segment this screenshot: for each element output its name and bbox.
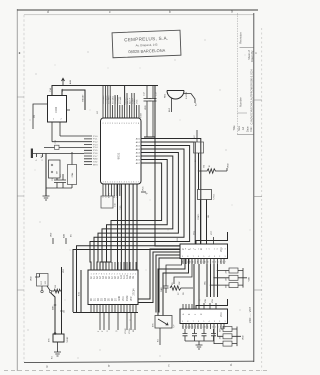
U3 bottom net labels xyxy=(98,328,135,334)
wire cap bottom rail xyxy=(144,136,155,138)
U3 top pin labels row xyxy=(90,274,135,279)
svg-text:RXD: RXD xyxy=(93,159,98,161)
svg-text:Date:: Date: xyxy=(246,126,250,132)
wire P1 line1 xyxy=(60,135,84,137)
svg-text:KD: KD xyxy=(133,329,135,332)
svg-text:COM 1: COM 1 xyxy=(198,213,200,220)
bus fan AD3 xyxy=(94,149,184,270)
wire tick marks J1 xyxy=(54,305,63,311)
svg-text:MAX: MAX xyxy=(52,305,55,310)
U3 bottom pins xyxy=(91,305,136,314)
svg-text:TLP521: TLP521 xyxy=(214,194,216,200)
box U7 xyxy=(194,142,204,153)
ground xtal xyxy=(43,196,50,200)
svg-text:P1.4: P1.4 xyxy=(93,147,98,149)
svg-text:P1.7: P1.7 xyxy=(93,156,98,158)
svg-text:BUZZER: BUZZER xyxy=(186,91,188,99)
wire RESET xyxy=(62,90,85,110)
DSP2 top pins xyxy=(183,303,216,309)
svg-text:VCC: VCC xyxy=(143,186,145,191)
wire XTAL rail xyxy=(45,154,47,197)
svg-text:108765432125242121: 108765432125242121 xyxy=(91,274,137,276)
title block divider vertical xyxy=(236,13,238,135)
svg-text:VDD: VDD xyxy=(31,276,33,281)
resistor R6 xyxy=(52,289,62,293)
connector J1 xyxy=(53,334,64,342)
svg-text:a: a xyxy=(46,365,48,369)
svg-text:4M: 4M xyxy=(57,171,59,174)
capacitor C14 xyxy=(164,281,169,293)
svg-text:P1.2: P1.2 xyxy=(93,142,98,144)
svg-text:PGM: PGM xyxy=(127,296,129,301)
zone tick left xyxy=(17,97,24,290)
U3 left wire xyxy=(73,270,138,313)
IC U5 xyxy=(48,96,67,123)
opto U6 xyxy=(198,190,212,200)
capacitor C18 xyxy=(202,329,207,341)
wire P1 line2 xyxy=(52,141,84,143)
wire DSP1 to R5 xyxy=(174,259,192,285)
wires VDL group xyxy=(207,264,218,297)
svg-text:VCC: VCC xyxy=(221,247,223,252)
transistor Q1 box xyxy=(155,316,172,329)
capacitor C13 xyxy=(150,88,157,137)
zone dot left xyxy=(19,52,21,54)
svg-text:Av. Diagonal, 143: Av. Diagonal, 143 xyxy=(136,43,158,48)
bus fan AD6 xyxy=(103,160,167,271)
svg-text:Title: Title xyxy=(232,125,236,131)
resistor RN2a xyxy=(223,327,232,332)
svg-text:OE: OE xyxy=(130,275,132,279)
wire U7 to opto xyxy=(198,153,200,190)
EPROM U3 xyxy=(88,270,138,305)
wire DSP1 vcc feed xyxy=(196,232,228,244)
svg-text:KG: KG xyxy=(52,356,54,359)
resistor R15 box xyxy=(37,274,49,287)
transistor pin circle A xyxy=(41,290,43,292)
resistor RN1a xyxy=(229,268,238,273)
svg-text:V1B: V1B xyxy=(212,299,214,303)
wires DSP1 to Q1 xyxy=(158,259,189,316)
svg-text:VD0 ..... VD7: VD0 ..... VD7 xyxy=(248,306,252,323)
wire stub VD0 xyxy=(52,238,54,244)
wires DSP1 to DSP2 xyxy=(194,264,199,309)
RN1 right join xyxy=(238,268,247,288)
svg-text:RESET: RESET xyxy=(83,94,85,102)
wire VD3 vertical xyxy=(61,267,63,334)
svg-text:2122232425262728: 2122232425262728 xyxy=(103,123,140,125)
scan speckle noise xyxy=(28,40,251,359)
svg-text:VOLA: VOLA xyxy=(128,328,131,334)
svg-text:A0B: A0B xyxy=(63,233,66,238)
svg-text:P1.0: P1.0 xyxy=(93,136,98,138)
bus fan AD5 xyxy=(100,156,173,270)
wire bus tag xyxy=(141,191,146,193)
svg-text:GND: GND xyxy=(119,296,121,301)
crystal Y1 xyxy=(68,165,77,185)
U2 bottom pins xyxy=(103,184,120,196)
junction dots VDL xyxy=(217,270,218,271)
wire VDD to R15 xyxy=(35,274,40,278)
wire caps gnd bus xyxy=(185,341,214,345)
svg-text:VDD: VDD xyxy=(228,163,230,168)
wire caps join xyxy=(46,185,72,189)
U3 bottom pin labels row xyxy=(91,296,133,301)
resistor RN2b xyxy=(223,334,232,339)
svg-text:Number: Number xyxy=(239,97,243,107)
wire Y1 top xyxy=(71,152,73,165)
title block field line xyxy=(240,47,254,49)
wire cap top rail xyxy=(147,86,153,89)
svg-text:d: d xyxy=(230,363,232,367)
wire tick marks xyxy=(37,154,43,158)
U2 left pin labels xyxy=(93,136,99,167)
border frame inner left xyxy=(23,15,25,362)
svg-text:C:\ADVSCH\SCH\CLAUTPRO\KORG80-: C:\ADVSCH\SCH\CLAUTPRO\KORG80-2.SCH xyxy=(249,69,253,124)
ground J1 xyxy=(54,352,61,356)
svg-text:P1.3: P1.3 xyxy=(93,144,98,146)
buzzer wire down xyxy=(171,99,173,113)
wire P1 line4 xyxy=(33,153,84,155)
DSP2 bottom pins xyxy=(183,324,224,330)
MCU U2 xyxy=(101,118,142,184)
buzzer LS1 xyxy=(167,91,184,100)
U2 top pin labels xyxy=(102,95,139,104)
switch S1 xyxy=(49,160,61,178)
svg-text:VOLB: VOLB xyxy=(125,328,127,334)
svg-text:OAD: OAD xyxy=(160,287,163,292)
svg-text:P1.5: P1.5 xyxy=(93,150,98,152)
ground dsp2 xyxy=(196,345,203,349)
DSP1 display driver xyxy=(180,244,228,259)
svg-text:1011121314151617: 1011121314151617 xyxy=(103,182,140,184)
svg-text:TXD: TXD xyxy=(93,162,98,164)
resistor R4 xyxy=(199,169,228,173)
wire stub A0B xyxy=(65,238,67,244)
border frame bottom xyxy=(24,361,254,362)
bus fan AD7 xyxy=(106,163,162,270)
connector P2 small box xyxy=(101,196,113,208)
svg-text:P1.1: P1.1 xyxy=(93,139,98,141)
bus fan AD4 xyxy=(97,153,178,271)
svg-text:CE: CE xyxy=(133,275,135,279)
title block bottom line xyxy=(237,134,254,136)
svg-text:d: d xyxy=(47,10,49,14)
svg-text:Drawn By:: Drawn By: xyxy=(250,50,254,62)
svg-text:9 8 7 6 5 4 3 2 1: 9 8 7 6 5 4 3 2 1 xyxy=(182,256,226,258)
border frame inner top xyxy=(24,14,254,16)
svg-text:b: b xyxy=(108,364,110,368)
Q1 inner mark xyxy=(158,319,168,325)
U2 top pins xyxy=(103,86,139,118)
bus fan AD0 xyxy=(73,139,201,313)
wire DSP1 to C14 xyxy=(166,259,182,282)
capacitor C12 xyxy=(144,88,151,137)
RN2 feed wires xyxy=(214,329,223,344)
border frame top xyxy=(17,9,258,11)
svg-text:a: a xyxy=(231,10,233,14)
svg-text:COM: COM xyxy=(55,107,58,113)
U2 left pins xyxy=(84,136,92,165)
connector CON2 xyxy=(31,149,33,159)
svg-text:VDD: VDD xyxy=(249,276,251,281)
wire VCC arrow top xyxy=(62,78,65,85)
stamp box xyxy=(112,30,181,58)
border frame outer right dotted xyxy=(261,28,263,371)
svg-text:VSS: VSS xyxy=(137,99,139,104)
svg-text:P1.6: P1.6 xyxy=(93,153,98,155)
DSP1 bottom pins xyxy=(183,259,224,265)
DSP1 vcc stub xyxy=(213,237,215,244)
Q1 bottom wire xyxy=(159,328,161,345)
resistor RN1c xyxy=(229,283,238,288)
svg-text:C1A: C1A xyxy=(49,87,52,92)
svg-text:P2.0A8: P2.0A8 xyxy=(119,96,122,104)
svg-text:VCC: VCC xyxy=(211,230,213,235)
svg-text:V0B: V0B xyxy=(205,299,207,303)
wire U5 left loop xyxy=(33,104,42,129)
DSP1 inner labels xyxy=(183,247,223,252)
border frame right xyxy=(253,13,255,362)
DSP2 inner labels xyxy=(183,312,223,317)
wire U5 bottom nets xyxy=(52,129,60,142)
bus fan AD2 xyxy=(90,146,190,271)
title block field line 2 xyxy=(237,112,247,114)
J1 bottom wire xyxy=(57,342,59,352)
svg-text:8031: 8031 xyxy=(117,152,121,159)
capacitor C3 xyxy=(60,174,66,188)
svg-text:RD: RD xyxy=(114,194,116,198)
wire P1 line3 with cap xyxy=(44,146,84,148)
opto output wires xyxy=(201,200,207,245)
border frame outer left xyxy=(16,9,18,371)
svg-text:VDD: VDD xyxy=(243,335,245,340)
capacitor C19 xyxy=(211,329,216,341)
svg-text:b: b xyxy=(169,10,171,14)
svg-text:VCC: VCC xyxy=(123,296,125,301)
svg-text:VCC: VCC xyxy=(194,230,196,235)
RN2 right join xyxy=(232,327,241,347)
U3 bottom long wires xyxy=(100,313,135,331)
capacitor C17 xyxy=(192,329,197,341)
wire U7 top xyxy=(196,130,198,142)
capacitor C16 xyxy=(183,329,188,341)
junction R4 xyxy=(198,170,199,171)
bus fan AD1 xyxy=(77,142,196,312)
svg-text:VDD: VDD xyxy=(145,105,147,110)
svg-text:Size: Size xyxy=(237,125,241,131)
buzzer wire right xyxy=(184,94,195,104)
U5 pin stubs xyxy=(42,104,70,129)
DSP2 display driver xyxy=(180,309,228,324)
resistor network RN1 wires xyxy=(211,271,230,286)
zone tick right xyxy=(254,100,262,290)
svg-text:INT0: INT0 xyxy=(93,164,99,166)
capacitor C15 xyxy=(55,145,60,149)
svg-text:A1B: A1B xyxy=(69,79,72,84)
U2 right pin labels xyxy=(136,137,141,165)
svg-text:Revision: Revision xyxy=(239,32,243,44)
bus MCU bottom vertical wires xyxy=(118,184,138,270)
svg-text:KG: KG xyxy=(158,339,160,342)
resistor RN1b xyxy=(229,275,238,280)
wire Q2 to J1 xyxy=(51,293,56,334)
svg-text:File:: File: xyxy=(249,126,253,131)
resistor R5 xyxy=(170,286,193,290)
transistor pin circle B xyxy=(49,290,51,292)
svg-text:TLWBF: TLWBF xyxy=(67,336,69,343)
svg-text:D1aD1bD1cD1dD1eD1f: D1aD1bD1cD1dD1eD1f xyxy=(182,327,226,329)
U3 top pins xyxy=(91,262,136,270)
svg-text:INT1: INT1 xyxy=(109,192,111,198)
svg-text:VPP: VPP xyxy=(131,296,133,301)
border frame outer bottom dashed xyxy=(4,370,268,372)
DSP1 left feeder wires xyxy=(138,86,180,313)
U2 bottom pin labels xyxy=(103,192,122,210)
wire U5 to MCU top xyxy=(52,86,158,106)
svg-text:27C64: 27C64 xyxy=(133,288,136,296)
resistor RN2c xyxy=(223,341,232,346)
wire R15 to Q2 xyxy=(42,286,50,290)
capacitor C2 xyxy=(54,178,60,188)
net VDD tick xyxy=(226,168,228,171)
wire DSP2 vcc feed xyxy=(196,299,228,309)
svg-text:A4: A4 xyxy=(241,126,245,130)
svg-text:VCC: VCC xyxy=(221,312,223,317)
svg-text:9 8 7 6 5 4 3 2 1: 9 8 7 6 5 4 3 2 1 xyxy=(182,321,226,323)
